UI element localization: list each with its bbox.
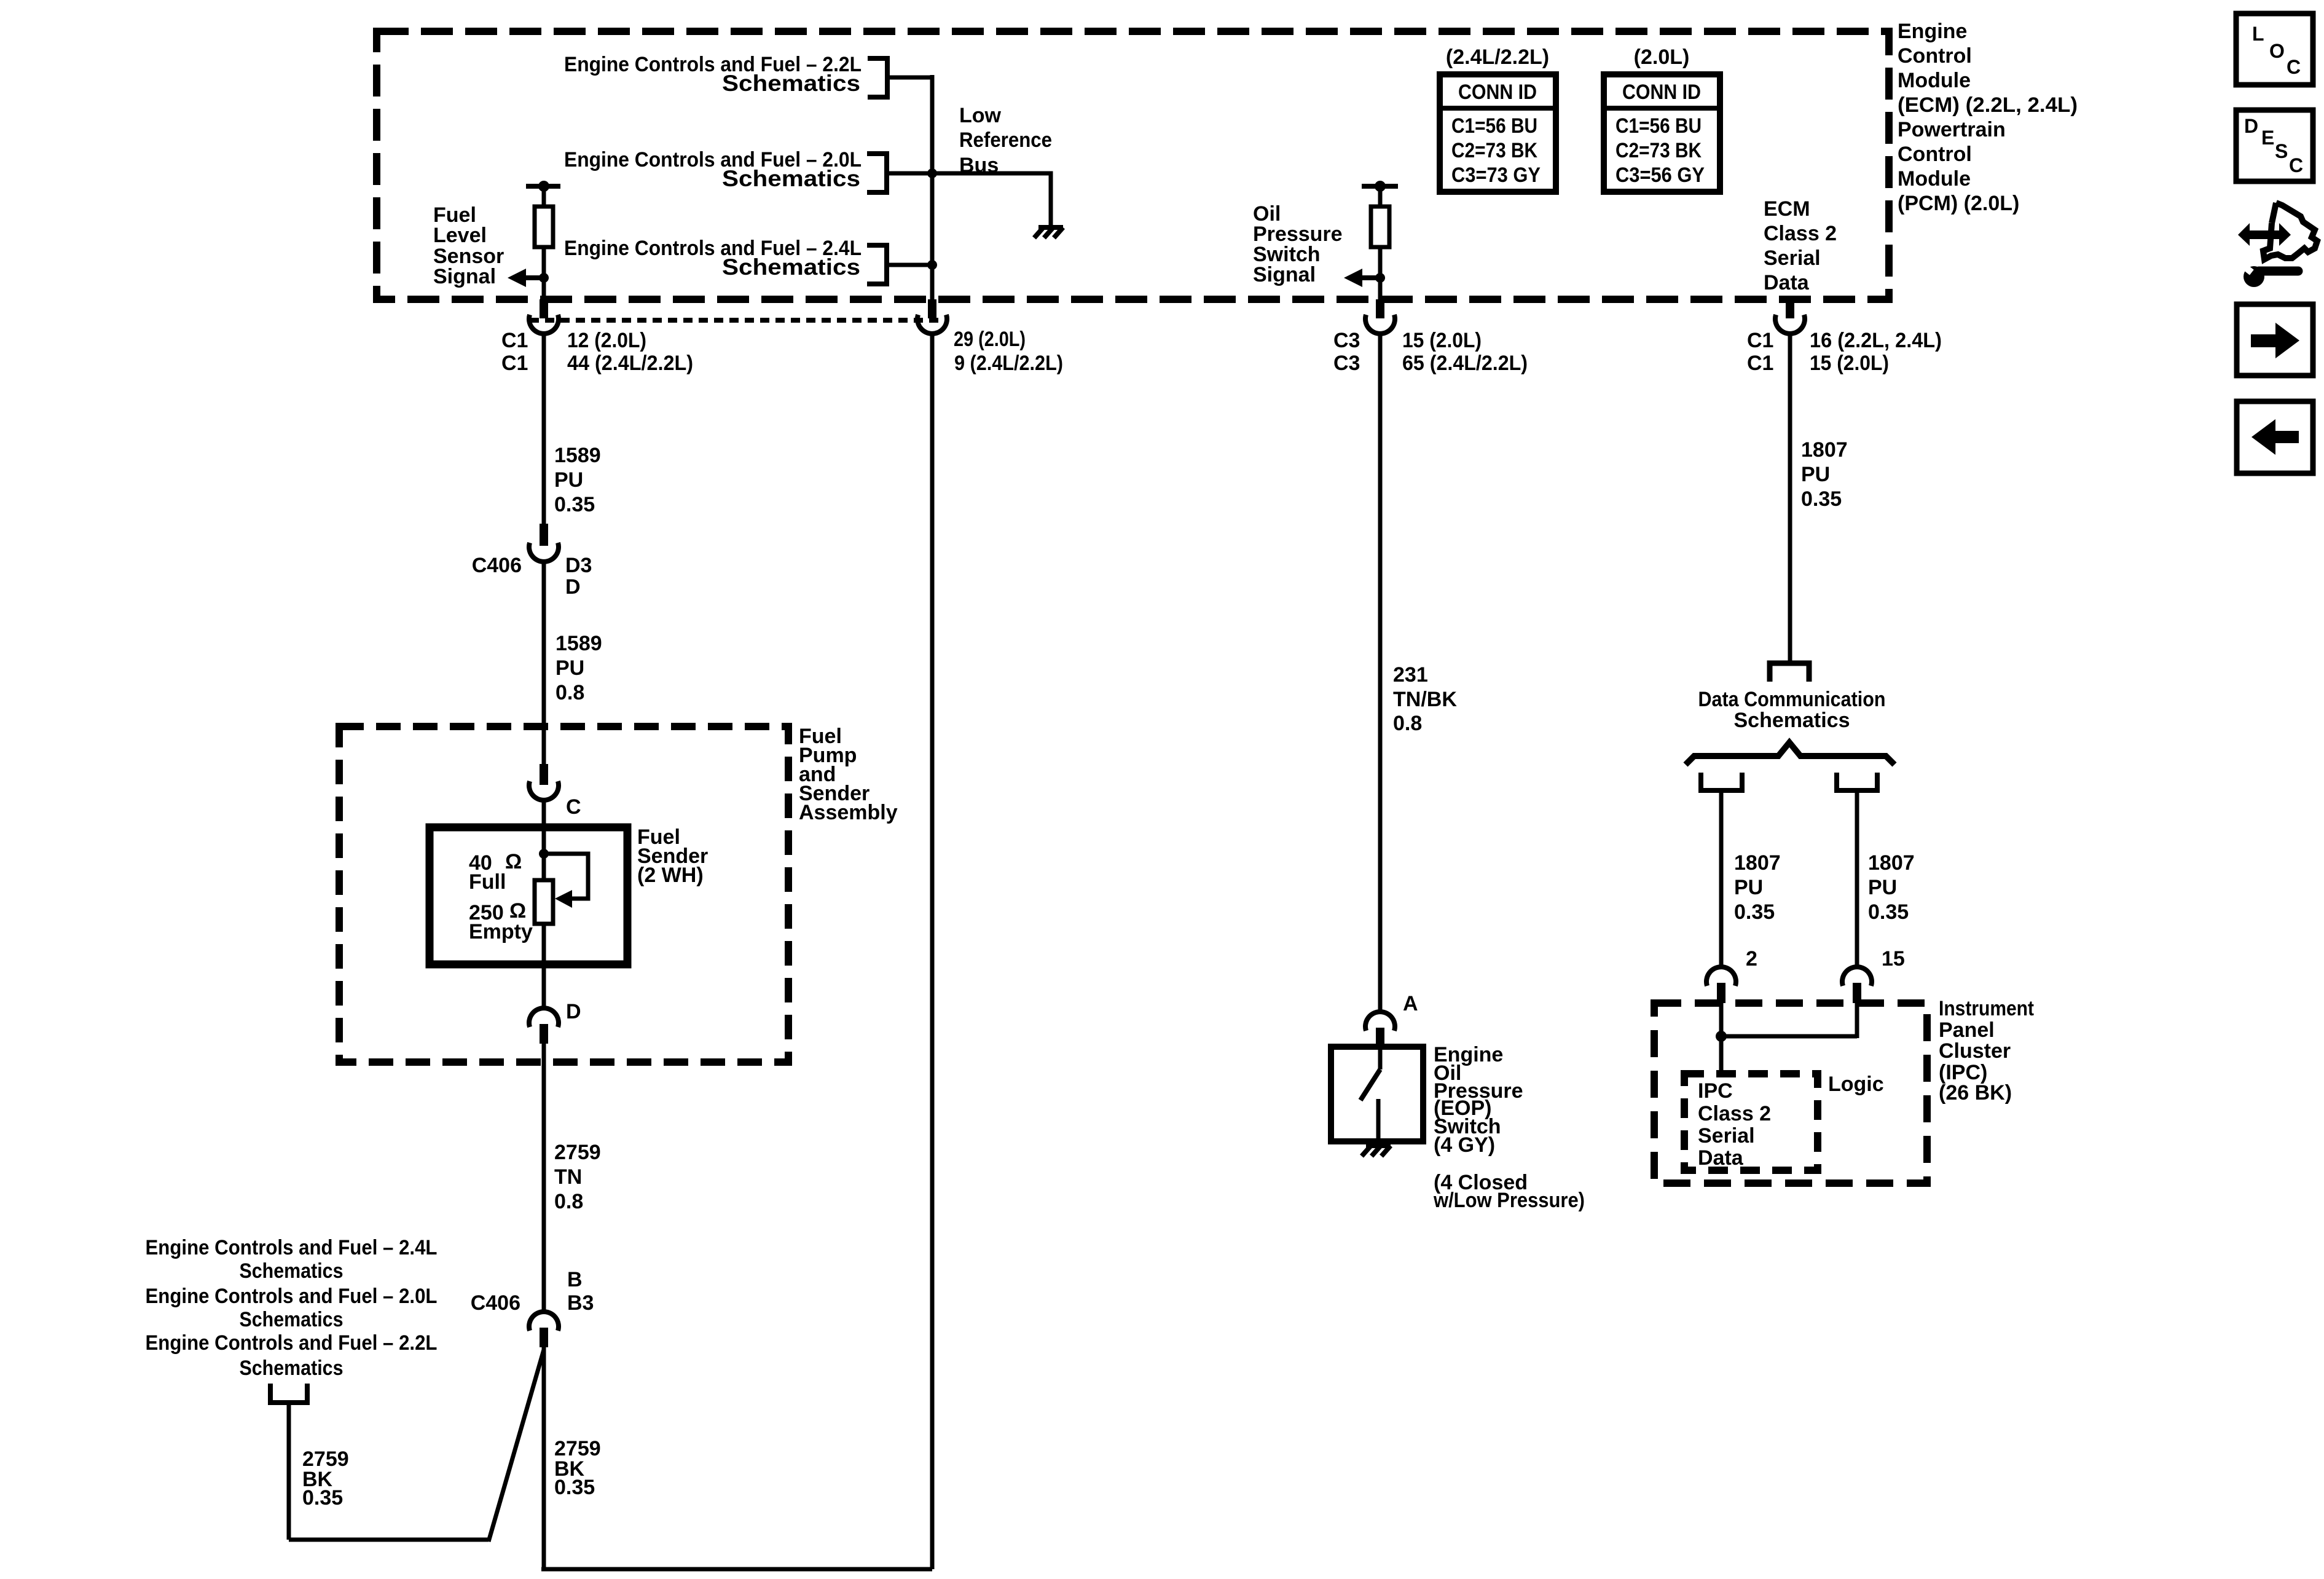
svg-text:C: C — [2289, 154, 2303, 176]
wire: low reference bus vertical inside ECM — [930, 75, 935, 299]
icon: service tools double arrow — [2248, 230, 2280, 239]
svg-text:Data Communication: Data Communication — [1698, 688, 1886, 711]
svg-text:Powertrain: Powertrain — [1898, 118, 2006, 141]
svg-text:C3: C3 — [1333, 329, 1360, 352]
svg-text:0.35: 0.35 — [1868, 900, 1909, 924]
svg-text:Engine Controls and Fuel – 2.0: Engine Controls and Fuel – 2.0L — [146, 1285, 438, 1308]
svg-text:C3=73 GY: C3=73 GY — [1451, 163, 1541, 187]
node: junction low reference bus / 2.0L bracket / ground tap — [927, 168, 937, 178]
svg-text:Schematics: Schematics — [240, 1357, 343, 1380]
svg-text:C1: C1 — [501, 329, 528, 352]
svg-text:Engine: Engine — [1898, 20, 1967, 43]
svg-text:Low: Low — [959, 104, 1002, 127]
svg-text:44 (2.4L/2.2L): 44 (2.4L/2.2L) — [567, 352, 693, 375]
svg-text:0.8: 0.8 — [554, 1190, 583, 1213]
svg-text:PU: PU — [1801, 463, 1830, 486]
svg-text:PU: PU — [555, 656, 584, 680]
svg-text:16 (2.2L, 2.4L): 16 (2.2L, 2.4L) — [1810, 329, 1942, 352]
svg-text:D3: D3 — [565, 554, 592, 577]
svg-text:65 (2.4L/2.2L): 65 (2.4L/2.2L) — [1402, 352, 1528, 375]
svg-text:Schematics: Schematics — [722, 166, 860, 191]
table: CONN ID (2.4L/2.2L) — [1440, 74, 1556, 192]
svg-text:Module: Module — [1898, 69, 1971, 92]
icon: DESC box — [2236, 110, 2313, 181]
svg-text:0.35: 0.35 — [302, 1486, 343, 1510]
svg-text:1807: 1807 — [1734, 851, 1781, 875]
svg-text:E: E — [2261, 127, 2274, 149]
connector C1: ECM class 2 serial data pin — [1786, 299, 1794, 318]
svg-text:Level: Level — [433, 224, 487, 247]
svg-text:Engine Controls and Fuel – 2.4: Engine Controls and Fuel – 2.4L — [146, 1236, 438, 1259]
wire: 1589 PU 0.35 from ECM to C406 — [542, 334, 546, 524]
wire: 2.4L bracket to low reference bus — [887, 263, 932, 267]
svg-text:15: 15 — [1882, 947, 1905, 971]
svg-text:Cluster: Cluster — [1939, 1039, 2011, 1063]
ground: ECM internal low reference ground — [1034, 227, 1063, 238]
node: IPC serial data junction — [1716, 1031, 1727, 1042]
svg-text:TN: TN — [554, 1165, 582, 1189]
svg-text:(2.4L/2.2L): (2.4L/2.2L) — [1446, 45, 1549, 69]
icon: LOC box — [2236, 14, 2313, 85]
svg-text:0.35: 0.35 — [1734, 900, 1775, 924]
svg-text:Panel: Panel — [1939, 1018, 1995, 1042]
svg-text:C1: C1 — [501, 352, 528, 375]
svg-text:Schematics: Schematics — [240, 1259, 343, 1283]
svg-text:Reference: Reference — [959, 128, 1052, 152]
svg-text:D: D — [566, 1000, 581, 1023]
svg-text:Data: Data — [1764, 271, 1810, 294]
connector C1: fuel level sensor signal pin — [540, 299, 548, 318]
svg-text:Schematics: Schematics — [240, 1308, 343, 1331]
wire: rail to pull-up resistor — [542, 186, 546, 207]
svg-text:0.35: 0.35 — [1801, 487, 1842, 511]
wire: pin C into sender — [542, 801, 546, 880]
wire: IPC pin 2 internal — [1719, 1003, 1724, 1036]
svg-text:Signal: Signal — [433, 265, 496, 288]
svg-text:O: O — [2269, 40, 2285, 62]
svg-text:PU: PU — [554, 468, 583, 492]
svg-text:Data: Data — [1698, 1146, 1744, 1170]
wire: pin A into switch — [1378, 1047, 1383, 1069]
svg-text:Logic: Logic — [1828, 1073, 1884, 1096]
ECM/PCM module dashed boundary box — [377, 31, 1889, 299]
svg-text:Signal: Signal — [1253, 263, 1316, 286]
wire: fuel level internal rail T-bar — [526, 184, 560, 189]
wire: IPC pin 15 internal — [1855, 1003, 1859, 1038]
svg-text:CONN ID: CONN ID — [1458, 81, 1537, 104]
svg-text:C406: C406 — [472, 554, 522, 577]
instrument panel cluster dashed box — [1654, 1003, 1927, 1183]
svg-text:(PCM) (2.0L): (PCM) (2.0L) — [1898, 192, 2019, 215]
switch blade (open contact) — [1360, 1069, 1380, 1100]
wire: 1589 PU 0.8 from C406 to fuel pump assembly — [542, 562, 546, 764]
svg-text:D: D — [2244, 115, 2258, 137]
svg-text:Schematics: Schematics — [722, 71, 860, 96]
wire: 2.2L bracket to low reference bus — [887, 76, 932, 80]
wire: resistor to output pin — [1378, 247, 1383, 301]
wire: potentiometer to pin D — [542, 924, 546, 1009]
svg-text:PU: PU — [1734, 876, 1763, 899]
svg-text:L: L — [2252, 23, 2264, 45]
wire: 1807 PU 0.35 to IPC pin 2 — [1719, 793, 1724, 967]
svg-text:Ω: Ω — [509, 899, 526, 923]
svg-text:C: C — [566, 795, 581, 819]
svg-text:231: 231 — [1393, 663, 1428, 687]
resistor: oil pressure pull-up (inside ECM) — [1371, 207, 1389, 247]
off-page bracket: engine controls schematics ground splice — [270, 1384, 307, 1403]
svg-text:Full: Full — [469, 870, 506, 894]
connector pin C of fuel pump assembly — [540, 764, 548, 785]
connector boundary: fine dashed harness line between C1 pins — [530, 318, 949, 323]
wire: 231 TN/BK 0.8 from ECM to EOP switch — [1378, 334, 1383, 1012]
svg-text:(ECM) (2.2L, 2.4L): (ECM) (2.2L, 2.4L) — [1898, 93, 2078, 117]
resistor: fuel level pull-up (inside ECM) — [535, 207, 553, 247]
svg-text:29 (2.0L): 29 (2.0L) — [954, 328, 1026, 351]
wire: wiper feedback loop — [544, 854, 588, 899]
svg-text:B: B — [567, 1268, 583, 1291]
off-page bracket: to Data Communication Schematics — [1770, 663, 1809, 682]
svg-text:Class 2: Class 2 — [1764, 222, 1837, 245]
node: junction low reference bus / 2.4L bracket — [927, 260, 937, 270]
svg-text:TN/BK: TN/BK — [1393, 688, 1457, 711]
svg-text:Instrument: Instrument — [1939, 997, 2034, 1020]
svg-text:9 (2.4L/2.2L): 9 (2.4L/2.2L) — [954, 352, 1063, 375]
svg-text:1807: 1807 — [1801, 438, 1848, 462]
wire: diagonal branch to other schematics — [489, 1350, 544, 1542]
svg-text:D: D — [565, 575, 581, 599]
svg-text:0.35: 0.35 — [554, 493, 595, 516]
fuel pump and sender assembly dashed box — [339, 726, 788, 1062]
svg-text:1807: 1807 — [1868, 851, 1915, 875]
switch: Engine Oil Pressure (EOP) switch box — [1331, 1047, 1423, 1141]
svg-text:C406: C406 — [471, 1291, 520, 1315]
wire: switch lower contact — [1376, 1099, 1381, 1141]
svg-text:C2=73 BK: C2=73 BK — [1451, 139, 1537, 162]
wire: 2759 BK 0.35 down to low reference bus join — [542, 1347, 546, 1569]
wiper arrow into potentiometer — [555, 890, 572, 908]
wire: 1807 PU 0.35 to IPC pin 15 — [1855, 793, 1859, 967]
svg-text:CONN ID: CONN ID — [1622, 81, 1701, 104]
svg-text:15 (2.0L): 15 (2.0L) — [1402, 329, 1482, 352]
off-page bracket 2.4L schematics — [867, 245, 887, 284]
svg-text:(4 GY): (4 GY) — [1434, 1133, 1495, 1157]
svg-text:C1=56 BU: C1=56 BU — [1451, 114, 1537, 138]
svg-text:Empty: Empty — [469, 920, 533, 943]
svg-text:PU: PU — [1868, 876, 1897, 899]
table: CONN ID (2.0L) — [1604, 74, 1720, 192]
svg-text:Schematics: Schematics — [722, 254, 860, 280]
svg-text:ECM: ECM — [1764, 197, 1810, 221]
wire: low reference bus from ECM to bottom join — [930, 334, 935, 1569]
svg-text:S: S — [2275, 140, 2288, 162]
connector C3: oil pressure switch signal pin — [1376, 299, 1384, 318]
potentiometer: fuel sender variable resistor — [535, 880, 553, 924]
wire: 2759 TN 0.8 sender ground return to C406 — [542, 1044, 546, 1311]
svg-text:1589: 1589 — [555, 632, 602, 655]
node: fuel level rail junction — [538, 181, 549, 192]
svg-text:Ω: Ω — [505, 850, 522, 873]
svg-text:IPC: IPC — [1698, 1079, 1733, 1103]
icon: service part outline — [2263, 203, 2317, 259]
wire: low reference to internal ground — [932, 173, 1051, 227]
svg-text:C1=56 BU: C1=56 BU — [1615, 114, 1702, 138]
svg-text:2: 2 — [1746, 947, 1757, 971]
wire: oil pressure internal rail T-bar — [1362, 184, 1398, 189]
off-page bracket: IPC serial data branch right — [1837, 773, 1877, 790]
wire: junction into IPC logic block — [1719, 1036, 1724, 1074]
fuel sender component box — [430, 827, 627, 964]
svg-text:15 (2.0L): 15 (2.0L) — [1810, 352, 1889, 375]
IPC Class 2 Serial Data logic dashed box — [1684, 1074, 1818, 1170]
svg-text:C: C — [2287, 56, 2301, 78]
svg-text:A: A — [1403, 992, 1418, 1015]
svg-text:(2 WH): (2 WH) — [637, 864, 704, 887]
svg-text:0.8: 0.8 — [555, 681, 584, 704]
svg-text:Class 2: Class 2 — [1698, 1102, 1771, 1125]
svg-text:0.8: 0.8 — [1393, 712, 1422, 735]
svg-text:Module: Module — [1898, 167, 1971, 191]
node: oil pressure rail junction — [1375, 181, 1386, 192]
wire: rail to pull-up resistor — [1378, 186, 1383, 207]
off-page bracket: IPC serial data branch left — [1701, 773, 1742, 790]
off-page bracket 2.0L schematics — [867, 154, 887, 192]
svg-text:C1: C1 — [1747, 352, 1773, 375]
svg-text:12 (2.0L): 12 (2.0L) — [567, 329, 646, 352]
svg-text:Assembly: Assembly — [799, 801, 898, 824]
wire: 2.0L bracket to low reference bus — [887, 171, 932, 176]
svg-text:Serial: Serial — [1764, 246, 1821, 270]
wire: bottom horizontal join of 2759 BK to low reference bus — [541, 1567, 932, 1572]
wire: internal serial data join — [1721, 1034, 1857, 1039]
svg-text:Serial: Serial — [1698, 1124, 1755, 1148]
icon: forward arrow box — [2237, 304, 2313, 376]
connector: low reference pin 29/9 — [928, 299, 936, 318]
wire: resistor to output pin — [542, 247, 546, 301]
svg-text:Schematics: Schematics — [1734, 709, 1850, 732]
svg-text:0.35: 0.35 — [554, 1476, 595, 1499]
off-page bracket 2.2L schematics — [868, 58, 887, 97]
node: sender wiper junction — [539, 849, 549, 859]
svg-text:C2=73 BK: C2=73 BK — [1615, 139, 1702, 162]
icon: wrench — [2244, 266, 2264, 287]
svg-text:2759: 2759 — [554, 1141, 601, 1164]
svg-text:Control: Control — [1898, 143, 1972, 166]
connector C406 pin D3/D in-line — [540, 524, 548, 546]
svg-text:B3: B3 — [567, 1291, 594, 1315]
node: fuel level signal junction — [539, 273, 549, 283]
svg-text:Control: Control — [1898, 44, 1972, 68]
svg-text:(2.0L): (2.0L) — [1634, 45, 1690, 69]
signal arrow: Oil Pressure Switch Signal (points left) — [1362, 275, 1380, 280]
svg-text:C1: C1 — [1747, 329, 1773, 352]
wire: 1807 PU 0.35 from ECM down to data comm bracket — [1788, 334, 1792, 661]
svg-text:w/Low Pressure): w/Low Pressure) — [1433, 1189, 1585, 1212]
svg-text:C3=56 GY: C3=56 GY — [1615, 163, 1705, 187]
icon: back arrow box — [2237, 401, 2313, 473]
node: oil pressure signal junction — [1375, 273, 1385, 283]
signal arrow: Fuel Level Sensor Signal (points left) — [526, 275, 544, 280]
wire: horizontal run to off-page bracket — [289, 1538, 489, 1542]
wire: vertical drop from off-page bracket — [287, 1404, 291, 1540]
svg-text:(26 BK): (26 BK) — [1939, 1081, 2012, 1105]
brace: data communication grouping — [1686, 742, 1894, 765]
svg-text:Engine Controls and Fuel – 2.2: Engine Controls and Fuel – 2.2L — [146, 1331, 438, 1355]
ground: EOP switch case ground — [1376, 1141, 1381, 1146]
svg-text:1589: 1589 — [554, 444, 601, 467]
svg-text:C3: C3 — [1333, 352, 1360, 375]
